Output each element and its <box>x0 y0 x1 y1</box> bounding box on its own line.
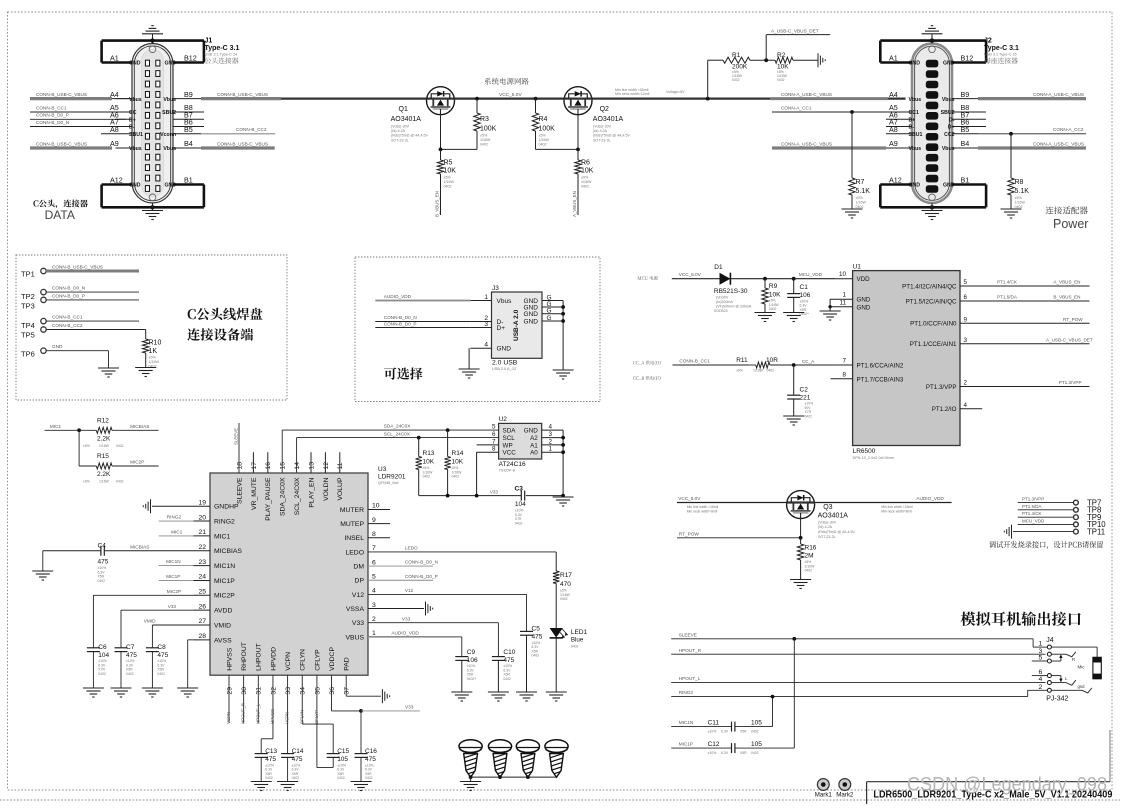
svg-text:3: 3 <box>484 321 488 328</box>
junction SDA R14 <box>446 428 450 432</box>
net RING2 <box>159 520 194 522</box>
svg-text:34: 34 <box>300 687 307 695</box>
net CONN-B_USB-C_VBUS at J1 A4 <box>30 97 112 100</box>
svg-text:LEDO: LEDO <box>345 549 364 556</box>
net SCL_24C0X <box>296 438 298 473</box>
net CONN-A_CC2 at J2 B5 <box>978 133 1086 135</box>
svg-text:1/16W: 1/16W <box>480 138 491 142</box>
svg-text:USB-A 2.0: USB-A 2.0 <box>513 309 520 341</box>
svg-text:V33: V33 <box>405 705 414 710</box>
wire screw ground bus <box>471 776 557 778</box>
net HPOUT_L <box>671 682 1045 684</box>
resistor R1 <box>707 60 709 98</box>
svg-text:6: 6 <box>492 431 496 438</box>
ground screws <box>460 781 481 783</box>
test point TP4 <box>41 318 46 323</box>
U3 short top stubs <box>252 452 254 473</box>
ground under C1 <box>783 312 804 314</box>
svg-text:(Vdss)-30V: (Vdss)-30V <box>818 520 837 524</box>
svg-text:INSEL: INSEL <box>344 535 364 542</box>
svg-text:Min neck width=8mil: Min neck width=8mil <box>881 509 912 513</box>
svg-text:CONN-B_USB-C_VBUS: CONN-B_USB-C_VBUS <box>36 141 87 146</box>
svg-text:R1: R1 <box>732 52 741 59</box>
svg-text:PT1.4/CK: PT1.4/CK <box>1022 511 1042 516</box>
svg-text:PLAY_EN: PLAY_EN <box>308 477 315 507</box>
U1 pin PT1.1/CCE/AIN1 <box>960 343 1090 345</box>
svg-text:RB521S-30: RB521S-30 <box>714 288 748 295</box>
svg-text:U1: U1 <box>853 263 862 270</box>
ground under C13 <box>251 781 272 783</box>
label system power network <box>484 78 528 85</box>
svg-text:9: 9 <box>372 517 376 524</box>
wire HPVSS down <box>228 675 230 723</box>
svg-text:10K: 10K <box>452 459 464 466</box>
svg-text:CONN-A_USB-C_VBUS: CONN-A_USB-C_VBUS <box>781 92 832 97</box>
ic U3 LDR9201 <box>210 473 368 675</box>
svg-text:GND: GND <box>909 61 921 67</box>
svg-text:A1: A1 <box>110 54 119 63</box>
svg-text:CONN-B_D0_P: CONN-B_D0_P <box>52 293 85 298</box>
svg-text:1/16W: 1/16W <box>539 138 550 142</box>
svg-text:(Rds)75mΩ @ 4A,4.5V: (Rds)75mΩ @ 4A,4.5V <box>593 134 630 138</box>
svg-text:SDA_24C0X: SDA_24C0X <box>280 477 287 516</box>
ground at AVSS <box>177 687 198 689</box>
svg-text:PT1.3/VPP: PT1.3/VPP <box>926 384 957 391</box>
svg-text:4: 4 <box>964 402 968 409</box>
U3 left pins <box>194 505 211 507</box>
svg-text:8: 8 <box>842 371 846 378</box>
svg-text:R2: R2 <box>777 52 786 59</box>
svg-text:PT1.5/DA: PT1.5/DA <box>1022 504 1042 509</box>
wire J2 bottom bracket <box>880 206 986 209</box>
svg-text:Mark1: Mark1 <box>815 792 833 799</box>
svg-text:B9: B9 <box>961 90 970 99</box>
svg-text:V33: V33 <box>490 489 498 494</box>
svg-text:0402: 0402 <box>560 597 568 601</box>
svg-text:R7: R7 <box>856 179 865 186</box>
svg-text:0402: 0402 <box>292 776 300 780</box>
svg-text:CONN-B_D0_N: CONN-B_D0_N <box>36 120 69 125</box>
svg-text:0402: 0402 <box>365 776 373 780</box>
svg-text:0402: 0402 <box>265 776 273 780</box>
svg-text:37: 37 <box>344 687 351 695</box>
svg-text:0402: 0402 <box>532 654 540 658</box>
svg-text:SBU1: SBU1 <box>909 132 923 138</box>
svg-text:R16: R16 <box>805 545 817 552</box>
net CONN-A_USB-C_VBUS at J2 A9 <box>772 146 886 149</box>
net RING2 bottom <box>671 696 1027 698</box>
svg-text:V12: V12 <box>405 588 414 593</box>
svg-text:4: 4 <box>1039 676 1043 683</box>
svg-text:475: 475 <box>532 634 543 641</box>
svg-text:0402: 0402 <box>732 78 740 82</box>
svg-text:PT1.6/CCA/AIN2: PT1.6/CCA/AIN2 <box>857 363 904 370</box>
wire VCC rail Q2 to J2 <box>592 97 906 99</box>
svg-text:6.3V: 6.3V <box>721 729 729 733</box>
svg-text:R13: R13 <box>423 450 435 457</box>
svg-text:V33: V33 <box>402 616 411 621</box>
svg-text:B_VBUS_EN: B_VBUS_EN <box>435 191 440 217</box>
svg-text:G: G <box>547 315 552 322</box>
capacitor C7 <box>115 647 128 649</box>
svg-text:Vbus: Vbus <box>497 298 513 305</box>
svg-text:PT1.4/CK: PT1.4/CK <box>997 280 1018 285</box>
svg-text:10: 10 <box>839 271 847 278</box>
junction RING2 C11 <box>771 695 775 699</box>
wire J1 top bracket <box>102 39 204 42</box>
svg-text:PT1.3/VPP: PT1.3/VPP <box>1059 380 1082 385</box>
net CONN-A_USB-C_VBUS at J2 B4 <box>978 146 1086 149</box>
svg-text:0402: 0402 <box>157 672 165 676</box>
svg-text:C3: C3 <box>515 486 524 493</box>
svg-text:28: 28 <box>198 633 206 640</box>
svg-text:SOT-23-3L: SOT-23-3L <box>391 138 409 142</box>
ground under C7 <box>111 687 132 689</box>
svg-text:B_VBUS_EN: B_VBUS_EN <box>1053 295 1080 300</box>
svg-text:GND: GND <box>943 61 955 67</box>
net RT_POW to Q3 gate <box>677 537 801 539</box>
U1 pin PT1.4/I2C/AIN4/QC <box>960 285 1090 287</box>
svg-text:A1: A1 <box>889 54 898 63</box>
svg-text:D+: D+ <box>497 325 506 332</box>
svg-text:LR6500: LR6500 <box>853 448 876 455</box>
svg-text:0402: 0402 <box>777 78 785 82</box>
svg-text:C10: C10 <box>503 649 515 656</box>
ground under R10 <box>135 367 156 369</box>
svg-text:CFLYN: CFLYN <box>299 710 304 724</box>
svg-text:10K: 10K <box>423 459 435 466</box>
svg-text:C12: C12 <box>708 741 720 748</box>
svg-text:CONN-B_USB-C_VBUS: CONN-B_USB-C_VBUS <box>217 92 268 97</box>
svg-text:TP5: TP5 <box>21 331 35 340</box>
svg-text:Q2: Q2 <box>600 106 609 113</box>
svg-text:31: 31 <box>256 687 263 695</box>
svg-text:MIC1: MIC1 <box>50 424 62 429</box>
svg-text:AO3401A: AO3401A <box>593 116 624 123</box>
svg-text:MICBIAS: MICBIAS <box>130 424 149 429</box>
svg-text:CONN-B_USB-C_VBUS: CONN-B_USB-C_VBUS <box>52 264 103 269</box>
label optional <box>384 367 422 379</box>
J1 pin stub wires right <box>173 111 204 113</box>
svg-text:9: 9 <box>964 317 968 324</box>
svg-text:10K: 10K <box>581 168 594 175</box>
ground U1 GND pins <box>829 307 831 311</box>
net CONN-B_CC2 at J1 B5 <box>173 133 201 135</box>
svg-text:C1: C1 <box>800 284 809 291</box>
ic U2 AT24C16 <box>499 423 542 459</box>
J1 pin stub wires left <box>116 98 133 100</box>
svg-text:1: 1 <box>549 446 553 453</box>
title block <box>866 782 868 804</box>
wire Q2 gate to R4 <box>577 115 579 150</box>
svg-text:5.1K: 5.1K <box>1015 188 1030 195</box>
svg-text:1K: 1K <box>149 348 158 355</box>
svg-text:CONN-B_D0_N: CONN-B_D0_N <box>384 315 417 320</box>
test point TP7 <box>1018 502 1074 504</box>
svg-text:475: 475 <box>292 756 303 763</box>
svg-text:USB 3.1 Type-C 16: USB 3.1 Type-C 16 <box>984 53 1017 57</box>
svg-text:G: G <box>547 308 552 315</box>
J3 right pin stubs <box>542 300 563 302</box>
svg-text:Power: Power <box>1053 217 1088 231</box>
svg-text:±5%: ±5% <box>83 480 90 484</box>
svg-text:B12: B12 <box>961 54 974 63</box>
J3 left pin stubs <box>470 300 491 302</box>
net CONN-B_D0_N at J3 <box>375 321 470 323</box>
wire VCPN to C14 <box>287 675 289 753</box>
svg-text:(Rds)75mΩ @ 4A,4.5V: (Rds)75mΩ @ 4A,4.5V <box>391 134 428 138</box>
svg-text:10: 10 <box>372 503 380 510</box>
svg-text:(Rds)75mΩ @ 4A,4.5V: (Rds)75mΩ @ 4A,4.5V <box>818 530 855 534</box>
svg-text:VDD: VDD <box>857 276 871 283</box>
svg-text:MIC1P: MIC1P <box>679 742 693 747</box>
svg-text:TP6: TP6 <box>21 350 35 359</box>
net CONN-B_CC1 at J1 A5 <box>30 111 126 113</box>
svg-text:±5%: ±5% <box>581 176 589 180</box>
net V33 at VDDCP <box>361 710 420 712</box>
svg-text:5: 5 <box>964 279 968 286</box>
fiducial Mark2 <box>839 779 851 791</box>
svg-text:C15: C15 <box>337 748 349 755</box>
svg-text:±5%: ±5% <box>480 134 488 138</box>
svg-text:0402: 0402 <box>503 677 511 681</box>
svg-text:475: 475 <box>503 657 514 664</box>
label debug interface <box>989 541 1103 549</box>
svg-text:13: 13 <box>308 462 315 470</box>
svg-text:35: 35 <box>314 687 321 695</box>
svg-text:27: 27 <box>198 618 206 625</box>
net CONN-B_CC1 at TP4 <box>46 320 139 322</box>
svg-text:0402: 0402 <box>769 307 777 311</box>
capacitor C9 <box>455 656 468 658</box>
connector J1 body <box>132 44 173 204</box>
svg-text:GND: GND <box>524 428 538 435</box>
junction C1 <box>792 277 796 281</box>
svg-text:Vbus: Vbus <box>909 97 922 103</box>
ground under R16 <box>790 579 811 581</box>
wire VDDCP node <box>331 675 333 711</box>
junction R1 R2 <box>764 58 768 62</box>
svg-text:CONN-B_D0_P: CONN-B_D0_P <box>384 322 417 327</box>
svg-text:DFN-10_2.0x2.0x0.8mm: DFN-10_2.0x2.0x0.8mm <box>853 456 894 460</box>
net SDA_24C0X <box>281 430 283 473</box>
svg-text:0402: 0402 <box>423 475 431 479</box>
svg-text:(Vdss)-30V: (Vdss)-30V <box>391 124 410 128</box>
svg-text:SDA: SDA <box>503 428 517 435</box>
svg-text:Blue: Blue <box>571 637 584 644</box>
svg-text:GND: GND <box>164 61 176 67</box>
svg-text:AVSS: AVSS <box>214 637 232 644</box>
svg-text:475: 475 <box>98 559 109 566</box>
svg-text:MIC2P: MIC2P <box>214 593 235 600</box>
svg-text:0402+: 0402+ <box>467 677 477 681</box>
net A_USB-C_VBUS_DET <box>765 35 767 61</box>
svg-text:VOLUP: VOLUP <box>337 477 344 501</box>
svg-text:MUTER: MUTER <box>340 507 364 514</box>
svg-text:Vbus: Vbus <box>909 146 922 152</box>
wire J2 top bracket <box>880 39 986 42</box>
svg-text:3: 3 <box>549 431 553 438</box>
svg-text:CFLYN: CFLYN <box>300 649 307 671</box>
connector J1 pins <box>145 60 149 66</box>
svg-text:2: 2 <box>964 380 968 387</box>
svg-text:HPOUT_R: HPOUT_R <box>241 703 246 724</box>
svg-text:24: 24 <box>198 574 206 581</box>
svg-text:AUDIO_VDD: AUDIO_VDD <box>384 294 412 299</box>
capacitor C3 <box>520 491 522 501</box>
svg-text:TP3: TP3 <box>21 302 35 311</box>
svg-text:PAD: PAD <box>344 657 351 671</box>
svg-text:VCPN: VCPN <box>285 652 292 671</box>
ground under LED1 <box>546 691 567 693</box>
svg-text:(Id)-4.2A: (Id)-4.2A <box>391 129 406 133</box>
svg-text:TP11: TP11 <box>1087 527 1105 536</box>
U1 pin PT1.3/VPP <box>960 386 1090 388</box>
ground under C8 <box>142 687 163 689</box>
svg-text:AO3401A: AO3401A <box>818 513 849 520</box>
ground at C4 <box>32 570 53 572</box>
svg-text:CFLYP: CFLYP <box>314 649 321 671</box>
svg-text:MIC2P: MIC2P <box>167 589 181 594</box>
svg-text:20: 20 <box>198 514 206 521</box>
svg-text:V33: V33 <box>168 604 177 609</box>
svg-text:A2: A2 <box>530 435 538 442</box>
svg-text:C16: C16 <box>365 748 377 755</box>
svg-text:AT24C16: AT24C16 <box>499 461 526 468</box>
svg-text:DP: DP <box>355 578 365 585</box>
svg-text:B1: B1 <box>184 176 193 185</box>
U1 pin PT1.5/I2C/AIN/QC <box>960 300 1090 302</box>
svg-text:RING2: RING2 <box>214 518 235 525</box>
net CONN-B_USB-C_VBUS at J1 B9 to Q1 <box>201 97 427 99</box>
test point box <box>16 255 287 400</box>
svg-text:C6: C6 <box>98 644 107 651</box>
svg-text:HPOUT_L: HPOUT_L <box>679 676 701 681</box>
net AUDIO_VDD at U3 VBUS <box>368 636 462 638</box>
test point TP2 <box>41 289 46 294</box>
svg-text:A1: A1 <box>530 442 538 449</box>
svg-text:23: 23 <box>198 559 206 566</box>
svg-text:Vbus: Vbus <box>163 97 176 103</box>
svg-text:MIC1P: MIC1P <box>166 574 180 579</box>
J1 orientation marks <box>149 46 156 53</box>
svg-text:5: 5 <box>492 424 496 431</box>
label power adapter <box>1046 206 1088 214</box>
U1 pin PT1.7 <box>831 378 853 380</box>
U2 pin VCC wire <box>477 451 499 453</box>
svg-text:SLEEVE: SLEEVE <box>234 428 239 445</box>
svg-text:CSDN @Legendary_098: CSDN @Legendary_098 <box>907 774 1107 796</box>
junction J2 bottom <box>930 205 934 209</box>
resistor R13 <box>418 438 420 457</box>
wire HPVDD to C13 <box>272 675 274 739</box>
net AUDIO_VDD from Q3 <box>815 502 952 504</box>
svg-text:104: 104 <box>98 652 109 659</box>
svg-text:106: 106 <box>467 657 478 664</box>
net LEDO <box>368 551 556 553</box>
fiducial Mark1 <box>817 779 829 791</box>
capacitor C6 <box>87 647 100 649</box>
U1 pin PT1.2/IO <box>960 408 982 410</box>
labels CC supply <box>633 361 661 366</box>
svg-text:0402: 0402 <box>581 185 589 189</box>
svg-text:Min line width <16mil: Min line width <16mil <box>687 505 719 509</box>
svg-text:RING2: RING2 <box>679 690 694 695</box>
svg-text:VCC_5.0V: VCC_5.0V <box>679 272 702 277</box>
U3 GNDHP power ground <box>152 505 194 507</box>
svg-text:LDR9201: LDR9201 <box>378 474 406 481</box>
net V33 at U3 <box>368 622 498 624</box>
svg-text:R11: R11 <box>736 357 748 364</box>
junction CC1 to R7 <box>850 110 854 114</box>
net V33 at AVDD wire to C7 <box>121 609 194 611</box>
wire AVSS to ground <box>188 639 194 641</box>
svg-text:100K: 100K <box>480 126 497 133</box>
test point TP5 <box>41 327 46 332</box>
svg-text:0402: 0402 <box>126 672 134 676</box>
svg-text:2M: 2M <box>805 553 814 560</box>
svg-text:R8: R8 <box>1015 179 1024 186</box>
svg-text:CONN-B_CC1: CONN-B_CC1 <box>52 315 83 320</box>
svg-text:1/16W: 1/16W <box>444 180 455 184</box>
svg-text:0402: 0402 <box>480 143 488 147</box>
svg-text:1/16W: 1/16W <box>856 201 867 205</box>
net CONN-B_CC2 at TP5 <box>46 329 146 331</box>
wire PAD to ground <box>345 675 347 696</box>
svg-text:17: 17 <box>251 462 258 470</box>
svg-text:CONN-B_D0_N: CONN-B_D0_N <box>52 286 85 291</box>
svg-text:A_USB-C_VBUS_DET: A_USB-C_VBUS_DET <box>1046 337 1093 342</box>
mic barrel <box>1093 657 1101 679</box>
svg-text:DM: DM <box>353 564 364 571</box>
svg-text:LED1: LED1 <box>571 629 588 636</box>
svg-text:CC1: CC1 <box>909 110 919 116</box>
net CONN-B_D0_N at J1 A7 <box>30 126 126 128</box>
svg-text:470: 470 <box>560 581 571 588</box>
label analog headphone output <box>961 611 1081 625</box>
svg-text:C9: C9 <box>467 649 476 656</box>
svg-text:26: 26 <box>198 603 206 610</box>
svg-text:7: 7 <box>492 438 496 445</box>
svg-text:±5%: ±5% <box>539 134 547 138</box>
ground at TP6 <box>98 367 119 369</box>
screw <box>459 740 482 753</box>
svg-text:D-: D- <box>129 125 135 131</box>
svg-text:GND: GND <box>129 183 141 189</box>
svg-text:8: 8 <box>492 446 496 453</box>
svg-text:0402: 0402 <box>751 751 759 755</box>
svg-text:3: 3 <box>964 337 968 344</box>
svg-text:33: 33 <box>285 687 292 695</box>
svg-text:R14: R14 <box>452 450 464 457</box>
svg-text:DATA: DATA <box>45 208 75 222</box>
svg-text:C11: C11 <box>708 719 720 726</box>
svg-text:(VF)500mV @ 200mA: (VF)500mV @ 200mA <box>716 305 752 309</box>
wire J1 bottom bracket <box>102 206 204 209</box>
screw <box>545 740 568 753</box>
junction Q3 gate <box>799 536 803 540</box>
svg-text:LEDO: LEDO <box>405 546 418 551</box>
svg-text:D1: D1 <box>714 264 723 271</box>
svg-text:5: 5 <box>1039 655 1043 662</box>
svg-text:(Vr)30V: (Vr)30V <box>716 296 729 300</box>
svg-text:2: 2 <box>372 616 376 623</box>
svg-text:VOLDN: VOLDN <box>323 477 330 501</box>
svg-text:SCL_24C0X: SCL_24C0X <box>294 477 301 515</box>
svg-text:B12: B12 <box>184 54 197 63</box>
svg-text:J4: J4 <box>1046 637 1054 644</box>
svg-text:R15: R15 <box>97 453 109 460</box>
